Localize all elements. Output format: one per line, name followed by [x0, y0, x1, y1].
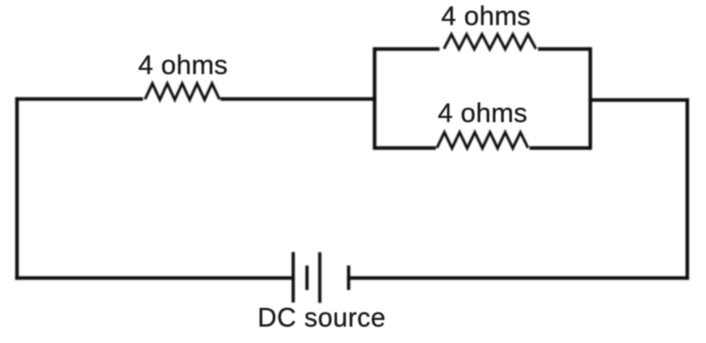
- svg-text:4 ohms: 4 ohms: [441, 1, 531, 31]
- svg-text:DC source: DC source: [258, 303, 386, 333]
- svg-text:4 ohms: 4 ohms: [438, 98, 528, 128]
- svg-text:4 ohms: 4 ohms: [138, 50, 228, 80]
